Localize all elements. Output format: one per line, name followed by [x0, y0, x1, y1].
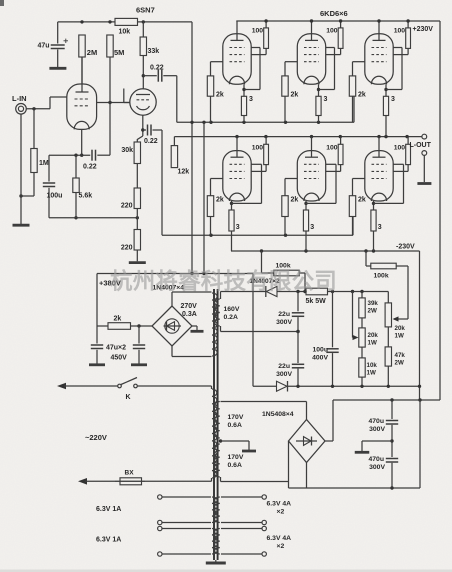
svg-text:300V: 300V: [276, 371, 292, 378]
svg-text:6.3V 1A: 6.3V 1A: [96, 506, 121, 513]
svg-text:22u: 22u: [278, 311, 290, 318]
svg-text:270V: 270V: [181, 303, 198, 310]
svg-text:47u×2: 47u×2: [106, 345, 126, 352]
svg-text:3: 3: [236, 224, 240, 231]
svg-text:2k: 2k: [114, 316, 122, 323]
svg-text:0.22: 0.22: [83, 164, 97, 171]
svg-text:杭州将睿科技有限公司: 杭州将睿科技有限公司: [110, 268, 337, 294]
svg-text:2k: 2k: [358, 92, 366, 99]
svg-text:100: 100: [326, 28, 338, 35]
svg-text:450V: 450V: [111, 355, 128, 362]
svg-text:3: 3: [378, 224, 382, 231]
svg-text:BX: BX: [125, 470, 135, 477]
svg-text:3: 3: [324, 96, 328, 103]
svg-text:47u: 47u: [37, 43, 49, 50]
svg-text:K: K: [126, 394, 131, 401]
svg-text:30k: 30k: [121, 147, 133, 154]
svg-text:-230V: -230V: [396, 244, 415, 251]
svg-text:22u: 22u: [278, 363, 290, 370]
svg-text:100u: 100u: [313, 347, 329, 354]
svg-text:100: 100: [252, 145, 264, 152]
svg-text:47k: 47k: [395, 352, 406, 359]
svg-text:6.3V 1A: 6.3V 1A: [96, 537, 121, 544]
svg-text:+230V: +230V: [413, 26, 434, 33]
svg-text:2k: 2k: [358, 197, 366, 204]
svg-text:5k 5W: 5k 5W: [306, 298, 327, 305]
svg-text:1M: 1M: [39, 160, 49, 167]
svg-text:0.2A: 0.2A: [224, 314, 238, 321]
svg-text:L-IN: L-IN: [12, 94, 27, 103]
svg-text:6.3V 4A: 6.3V 4A: [267, 535, 292, 542]
svg-text:39k: 39k: [368, 300, 379, 307]
svg-text:100: 100: [252, 28, 264, 35]
svg-text:3: 3: [391, 96, 395, 103]
svg-text:220: 220: [121, 245, 133, 252]
svg-text:2k: 2k: [216, 197, 224, 204]
svg-text:0.6A: 0.6A: [228, 462, 242, 469]
svg-text:100u: 100u: [47, 193, 63, 200]
svg-text:5M: 5M: [114, 48, 124, 57]
svg-text:12k: 12k: [178, 169, 190, 176]
svg-text:6SN7: 6SN7: [136, 6, 155, 15]
svg-text:300V: 300V: [276, 319, 292, 326]
svg-text:1N5408×4: 1N5408×4: [262, 411, 294, 418]
svg-text:2k: 2k: [291, 92, 299, 99]
svg-text:×2: ×2: [277, 543, 285, 550]
svg-text:170V: 170V: [228, 454, 244, 461]
svg-text:2M: 2M: [87, 48, 97, 57]
svg-text:100: 100: [326, 145, 338, 152]
svg-text:×2: ×2: [277, 509, 285, 516]
svg-text:2W: 2W: [395, 360, 404, 367]
svg-text:100: 100: [394, 145, 406, 152]
svg-text:0.22: 0.22: [144, 138, 158, 145]
svg-text:L-OUT: L-OUT: [410, 142, 432, 149]
svg-text:33k: 33k: [148, 48, 160, 55]
svg-text:20k: 20k: [395, 325, 406, 332]
svg-text:1W: 1W: [367, 370, 376, 377]
svg-text:160V: 160V: [224, 306, 240, 313]
svg-text:400V: 400V: [312, 355, 328, 362]
svg-text:300V: 300V: [369, 464, 385, 471]
svg-text:470u: 470u: [369, 456, 385, 463]
svg-text:0.6A: 0.6A: [228, 422, 242, 429]
svg-text:5.6k: 5.6k: [79, 193, 93, 200]
svg-text:10k: 10k: [367, 362, 378, 369]
svg-text:470u: 470u: [369, 418, 385, 425]
svg-text:2W: 2W: [368, 308, 377, 315]
svg-text:100k: 100k: [374, 273, 389, 280]
svg-text:2k: 2k: [216, 92, 224, 99]
svg-text:1W: 1W: [395, 333, 404, 340]
svg-text:3: 3: [249, 96, 253, 103]
svg-text:300V: 300V: [369, 426, 385, 433]
svg-text:170V: 170V: [228, 414, 244, 421]
svg-text:2k: 2k: [291, 197, 299, 204]
svg-text:100: 100: [394, 28, 406, 35]
svg-text:3: 3: [310, 224, 314, 231]
svg-text:20k: 20k: [368, 332, 379, 339]
svg-text:6.3V 4A: 6.3V 4A: [267, 501, 292, 508]
svg-text:1W: 1W: [368, 340, 377, 347]
svg-text:220: 220: [121, 203, 133, 210]
svg-text:10k: 10k: [119, 29, 131, 36]
svg-text:0.3A: 0.3A: [182, 311, 197, 318]
svg-text:6KD6×6: 6KD6×6: [320, 9, 348, 18]
svg-text:~220V: ~220V: [85, 433, 107, 442]
